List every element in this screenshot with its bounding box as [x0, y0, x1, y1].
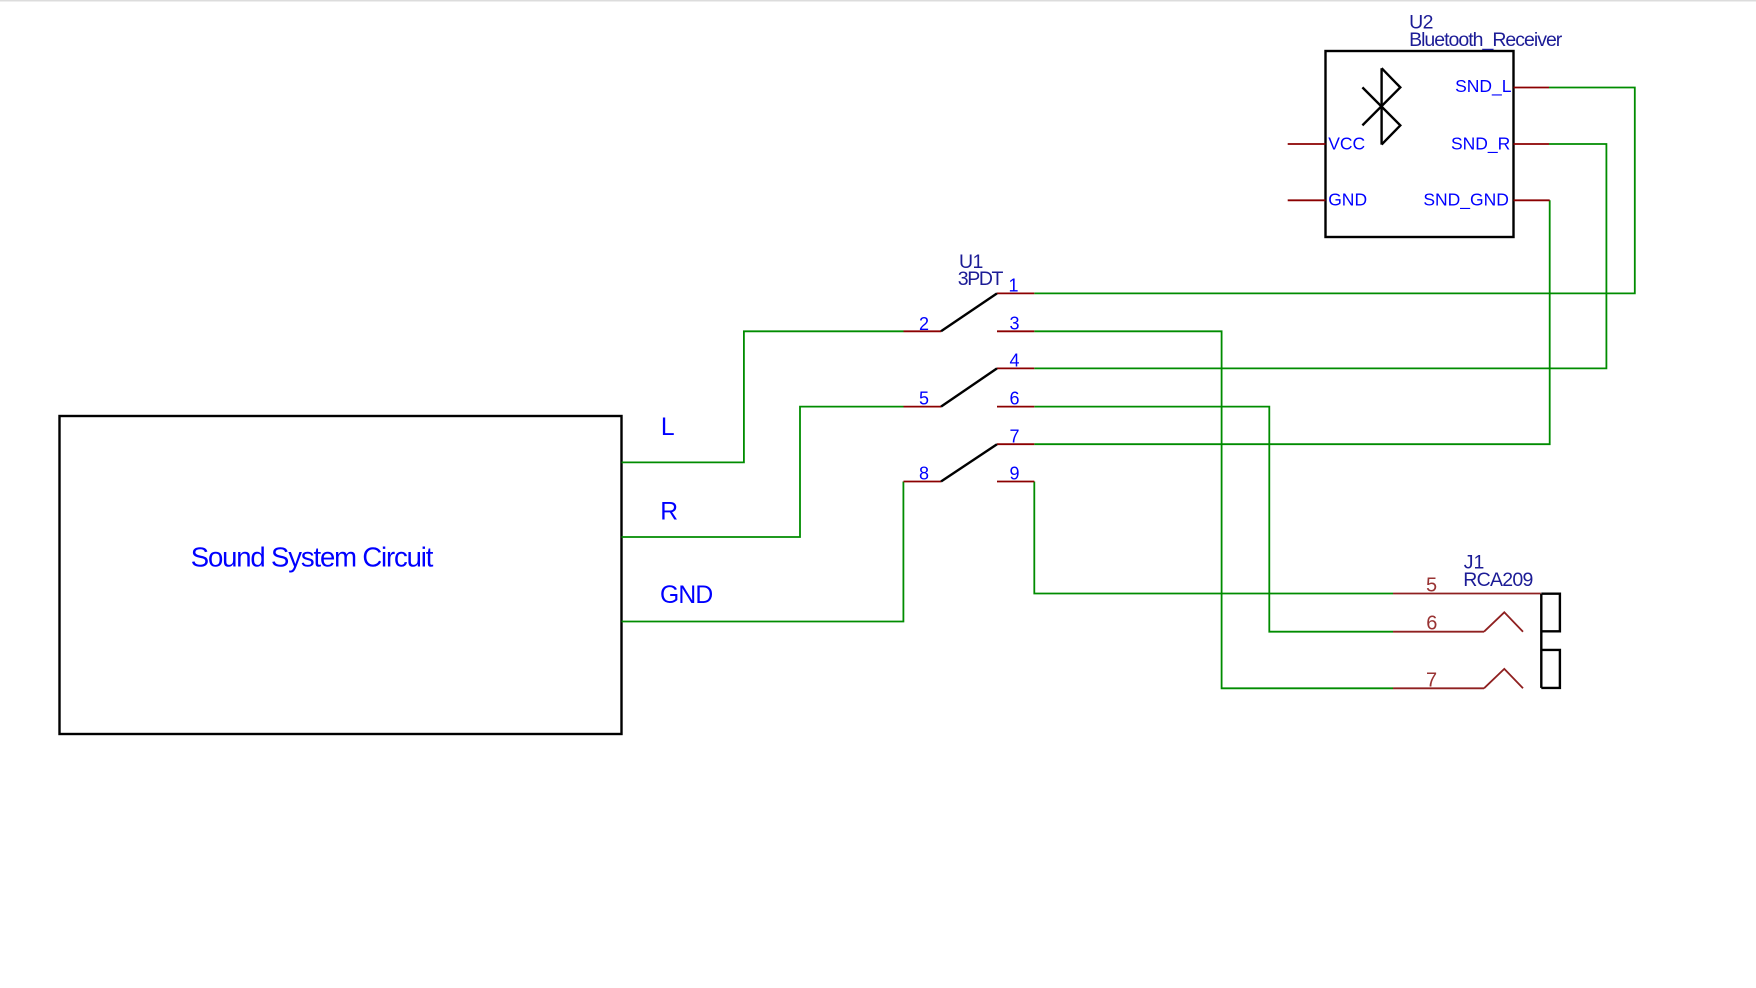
svg-text:3: 3 — [1009, 313, 1019, 333]
U2 pin GND stub — [1288, 199, 1326, 201]
svg-text:9: 9 — [1009, 464, 1019, 484]
svg-text:GND: GND — [1328, 189, 1367, 209]
U2 pin SND_GND stub — [1514, 199, 1550, 201]
wire switch pin 9 to J1 pin 5 — [1034, 482, 1393, 594]
J1 pin 5 line — [1393, 593, 1541, 595]
svg-text:GND: GND — [660, 582, 712, 609]
wire switch pin 6 to J1 pin 6 — [1034, 407, 1393, 632]
svg-text:R: R — [660, 499, 678, 526]
svg-text:SND_GND: SND_GND — [1423, 189, 1509, 210]
U2 pin SND_L stub — [1514, 87, 1550, 89]
wire switch pin 1 to U2 SND_L — [1034, 88, 1635, 294]
svg-text:3PDT: 3PDT — [958, 268, 1004, 290]
wire GND from sound box to switch pin 8 — [622, 482, 904, 622]
wire L from sound box to switch pin 2 — [622, 331, 904, 462]
svg-text:1: 1 — [1008, 276, 1018, 296]
svg-text:2: 2 — [919, 314, 929, 334]
svg-text:5: 5 — [919, 389, 929, 409]
wire switch pin 4 to U2 SND_R — [1034, 144, 1606, 368]
svg-text:5: 5 — [1426, 574, 1437, 596]
U2 pin SND_R stub — [1514, 143, 1550, 145]
svg-text:6: 6 — [1009, 389, 1019, 409]
bluetooth logo rune — [1362, 68, 1400, 144]
switch U1 pin 1 stub — [997, 292, 1034, 294]
switch U1 arm pole A — [941, 293, 997, 331]
svg-text:4: 4 — [1009, 351, 1019, 371]
svg-text:SND_R: SND_R — [1451, 134, 1510, 155]
svg-text:8: 8 — [919, 464, 929, 484]
wire switch pin 7 to U2 SND_GND — [1034, 200, 1549, 444]
switch U1 pin 8 stub — [904, 481, 942, 483]
switch U1 pin 5 stub — [904, 406, 942, 408]
switch U1 pin 6 stub — [997, 406, 1034, 408]
svg-text:SND_L: SND_L — [1455, 76, 1512, 97]
J1 jack body bracket — [1541, 594, 1560, 688]
svg-text:7: 7 — [1009, 426, 1019, 446]
switch U1 pin 4 stub — [997, 367, 1034, 369]
top window edge — [0, 0, 1756, 2]
svg-text:6: 6 — [1426, 613, 1437, 635]
switch U1 arm pole B — [941, 368, 997, 406]
J1 pin 7 line with contact chevron — [1393, 669, 1523, 688]
svg-text:RCA209: RCA209 — [1463, 569, 1533, 591]
component U3 Sound System Circuit box — [60, 416, 622, 734]
svg-text:Bluetooth_Receiver: Bluetooth_Receiver — [1409, 29, 1563, 51]
svg-text:VCC: VCC — [1328, 134, 1365, 154]
svg-text:7: 7 — [1426, 669, 1437, 691]
svg-text:L: L — [661, 414, 675, 441]
switch U1 pin 7 stub — [997, 443, 1034, 445]
wire R from sound box to switch pin 5 — [622, 407, 904, 537]
switch U1 pin 2 stub — [904, 330, 942, 332]
switch U1 pin 9 stub — [997, 481, 1034, 483]
U2 pin VCC stub — [1288, 143, 1326, 145]
wire switch pin 3 to J1 pin 7 — [1034, 331, 1393, 688]
component U2 Bluetooth_Receiver box — [1326, 51, 1514, 237]
switch U1 arm pole C — [941, 444, 997, 481]
svg-text:Sound System Circuit: Sound System Circuit — [191, 542, 434, 573]
switch U1 pin 3 stub — [997, 330, 1034, 332]
J1 pin 6 line with contact chevron — [1393, 612, 1523, 631]
